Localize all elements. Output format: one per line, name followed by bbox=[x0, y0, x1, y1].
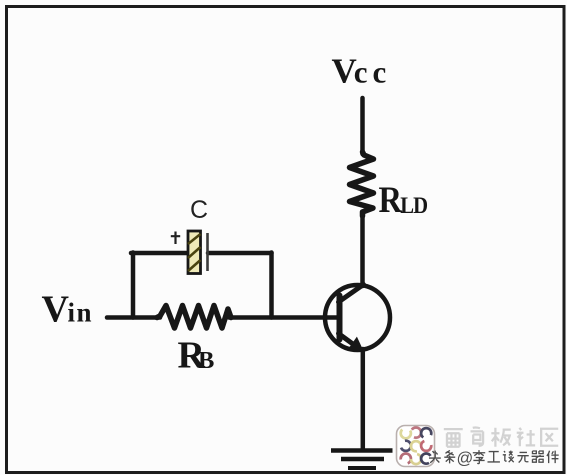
capacitor C plate positive (hatched) bbox=[188, 231, 201, 274]
capacitor C plate negative bbox=[206, 233, 209, 271]
svg-text:Vcc: Vcc bbox=[332, 52, 392, 91]
wire RLD to collector bbox=[360, 214, 365, 286]
watermark logo bbox=[397, 426, 435, 467]
wire Vcc to RLD bbox=[360, 98, 365, 154]
svg-text:@: @ bbox=[457, 450, 474, 468]
transistor Q1 bbox=[325, 285, 390, 353]
resistor RB bbox=[157, 306, 231, 329]
wire emitter to ground bbox=[361, 349, 366, 450]
wire Vin to RB bbox=[107, 315, 160, 320]
svg-text:C: C bbox=[190, 196, 208, 224]
watermark ghost text mianbaoban shequ bbox=[444, 427, 558, 446]
wire cap top right bbox=[208, 251, 272, 256]
wire cap left vertical bbox=[131, 253, 136, 318]
ground bbox=[331, 451, 393, 469]
wire cap right vertical bbox=[269, 253, 274, 318]
wire RB to base bbox=[229, 315, 337, 320]
polarity plus sign bbox=[171, 232, 180, 245]
wire cap top left bbox=[131, 251, 189, 256]
resistor RLD bbox=[350, 152, 374, 216]
watermark dark text toutiao at ligong tan yuanqijian bbox=[429, 450, 559, 464]
